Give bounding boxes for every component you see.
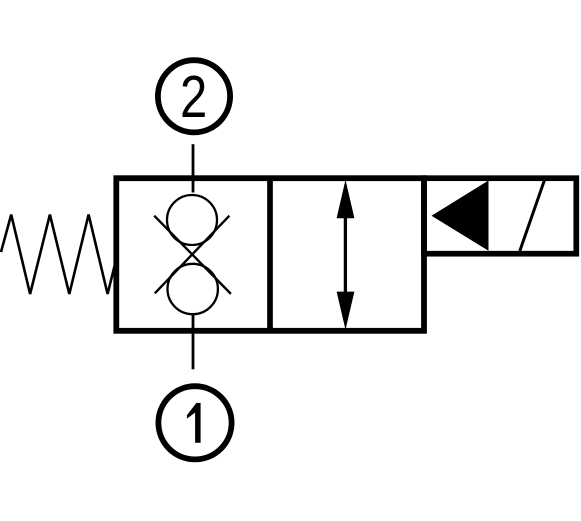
svg-text:2: 2: [180, 65, 207, 130]
